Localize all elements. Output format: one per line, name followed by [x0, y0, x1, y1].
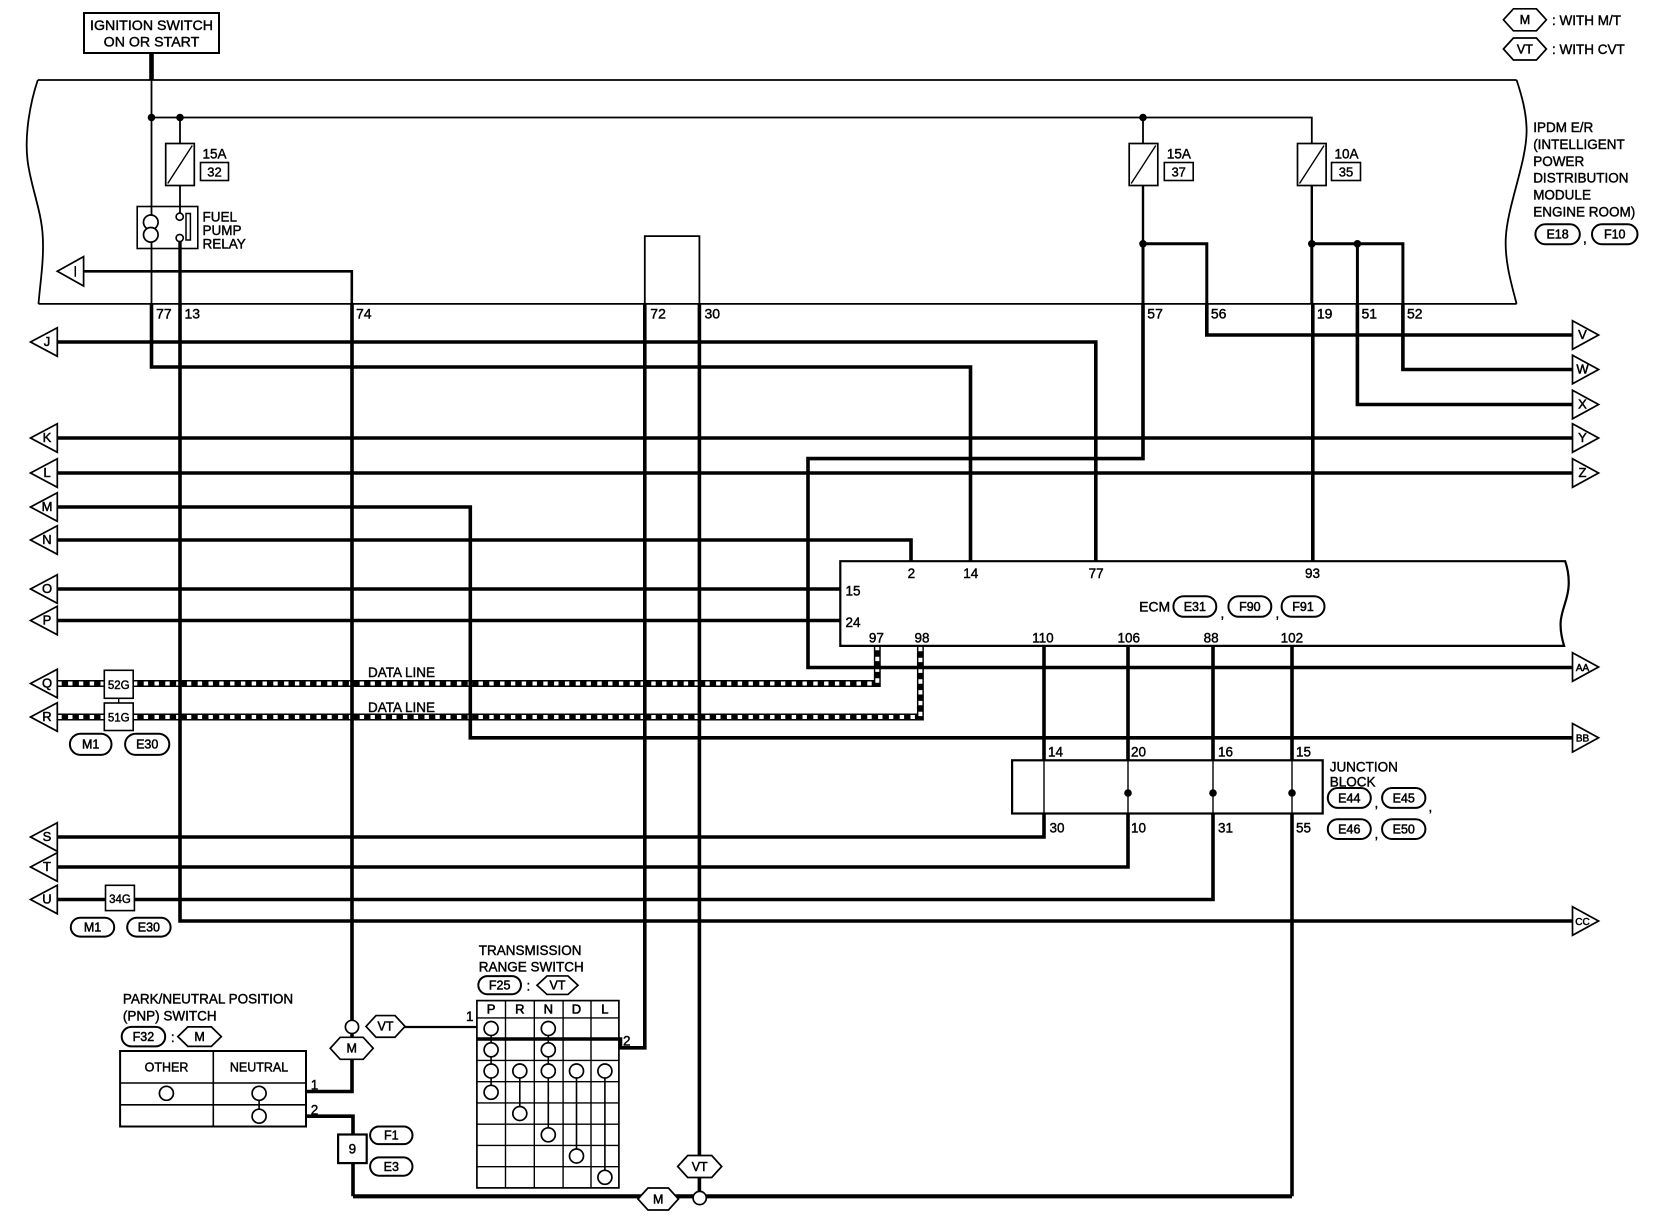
svg-text:30: 30	[705, 306, 721, 322]
svg-text:X: X	[1578, 396, 1587, 411]
symbol M (PNP branch)	[330, 1037, 373, 1059]
TRS contacts column N	[541, 1022, 555, 1036]
TRS contacts column L	[598, 1064, 612, 1078]
svg-text:(INTELLIGENT: (INTELLIGENT	[1533, 137, 1625, 152]
wire: junction block pin 55 down to ground run	[1290, 814, 1294, 1197]
connector 9 box	[338, 1135, 367, 1164]
wire: connector L to connector Z	[57, 471, 1572, 475]
node: junction block pin 16 splice	[1209, 789, 1217, 797]
svg-text:51: 51	[1362, 306, 1378, 322]
svg-text:,: ,	[1375, 796, 1379, 811]
svg-text:D: D	[572, 1002, 581, 1017]
svg-text:,: ,	[1276, 606, 1280, 621]
connector E31	[1173, 596, 1216, 617]
svg-text:S: S	[43, 829, 52, 844]
svg-text:10: 10	[1131, 821, 1146, 836]
svg-text:56: 56	[1211, 306, 1227, 322]
svg-text:PARK/NEUTRAL POSITION: PARK/NEUTRAL POSITION	[123, 992, 293, 1007]
svg-text:102: 102	[1281, 631, 1304, 646]
node: pin 56/57 junction	[1139, 240, 1147, 248]
connector AA	[1573, 653, 1599, 682]
fuel pump relay contact	[186, 214, 190, 241]
wire: connector S to junction block pin 30	[57, 814, 1044, 838]
TRS grid lines	[505, 1001, 507, 1188]
svg-text:N: N	[42, 532, 51, 547]
svg-text::: :	[527, 979, 531, 994]
ignition switch box	[84, 13, 219, 53]
svg-text:ENGINE ROOM): ENGINE ROOM)	[1533, 205, 1635, 220]
wire: ECM pin 106 to junction block pin 20	[1126, 646, 1130, 760]
svg-text:1: 1	[311, 1078, 319, 1093]
svg-text:M: M	[1520, 13, 1530, 27]
svg-text:E44: E44	[1338, 791, 1360, 805]
svg-text:57: 57	[1147, 306, 1163, 322]
svg-text:14: 14	[1048, 745, 1064, 760]
svg-text:32: 32	[207, 165, 221, 180]
legend symbol VT	[1503, 38, 1546, 60]
svg-text:,: ,	[1221, 606, 1225, 621]
wire: fuse 32 to fuel pump relay contact	[179, 185, 181, 214]
svg-text:77: 77	[1089, 566, 1104, 581]
node: junction block pin 15 splice	[1288, 789, 1296, 797]
svg-text:52: 52	[1407, 306, 1423, 322]
connector Y	[1573, 424, 1599, 453]
connector M1 (ground)	[71, 918, 114, 937]
wire: CAN data line from Q to ECM pin 97 (dashed)	[57, 646, 877, 684]
svg-text:O: O	[42, 581, 52, 596]
node: connector joint on ground run	[693, 1191, 706, 1204]
svg-text:20: 20	[1131, 745, 1146, 760]
svg-text:77: 77	[156, 306, 172, 322]
svg-text:,: ,	[1429, 800, 1433, 815]
svg-text:P: P	[43, 613, 52, 628]
splice 52G	[104, 670, 133, 698]
svg-text:T: T	[43, 859, 51, 874]
wire: link between 52G and 51G	[118, 698, 120, 703]
svg-text:NEUTRAL: NEUTRAL	[230, 1061, 288, 1075]
svg-text:19: 19	[1317, 306, 1333, 322]
wire: fuse 35 node branch to IPDM pins 51 and 52	[1312, 244, 1403, 304]
svg-text:OTHER: OTHER	[145, 1061, 189, 1075]
svg-text:52G: 52G	[108, 680, 130, 692]
connector E3	[370, 1157, 412, 1175]
svg-text:88: 88	[1204, 631, 1219, 646]
svg-text:E46: E46	[1338, 822, 1360, 836]
PNP contact neutral upper	[252, 1086, 266, 1100]
wire: connector M to connector BB	[57, 507, 1572, 738]
svg-text:M1: M1	[82, 738, 99, 752]
svg-text:16: 16	[1218, 745, 1233, 760]
connector E30 (data lines)	[125, 734, 169, 755]
wire: IPDM pin 57 to connector AA	[808, 304, 1573, 668]
wire: relay contact output to IPDM pin 13	[178, 241, 181, 304]
svg-text:M: M	[194, 1030, 204, 1044]
svg-text:ON OR START: ON OR START	[104, 35, 200, 51]
svg-text:: WITH CVT: : WITH CVT	[1552, 42, 1625, 57]
connector S	[31, 823, 58, 852]
connector K	[31, 424, 58, 453]
svg-text:VT: VT	[550, 979, 566, 993]
svg-text:14: 14	[963, 566, 979, 581]
connector P	[31, 606, 58, 635]
svg-text:F32: F32	[133, 1030, 155, 1044]
svg-text:72: 72	[650, 306, 666, 322]
wire: bus branch to fuse 32	[179, 118, 181, 145]
svg-text:E45: E45	[1393, 791, 1415, 805]
fuse 10A 35	[1298, 144, 1327, 186]
node: junction block pin 20 splice	[1124, 789, 1132, 797]
svg-text:10A: 10A	[1335, 147, 1359, 162]
svg-text:9: 9	[349, 1142, 357, 1157]
svg-text:Q: Q	[42, 676, 52, 691]
node: ignition bus junction	[148, 114, 156, 122]
symbol VT (TRS with CVT)	[537, 976, 578, 995]
connector X	[1573, 390, 1599, 419]
wire: connector O to ECM pin 15	[57, 587, 841, 591]
connector L	[31, 459, 58, 488]
wire: IPDM pin 52 to connector W	[1403, 304, 1573, 370]
wire: connector N to ECM pin 2	[57, 540, 911, 562]
wire: PNP switch pin 2 through connector 9 to ground run	[306, 1116, 353, 1196]
wire: IPDM pin 77 to ECM pin 14	[152, 304, 971, 562]
svg-text:L: L	[601, 1002, 608, 1017]
svg-text:F90: F90	[1239, 600, 1261, 614]
svg-text:F1: F1	[384, 1129, 399, 1143]
wire: IPDM pin 30 down to splice on ground run	[698, 304, 702, 1198]
wire: IPDM pin 56 to connector V	[1207, 304, 1573, 335]
TRS contacts column R	[513, 1064, 527, 1078]
svg-text:DISTRIBUTION: DISTRIBUTION	[1533, 171, 1628, 186]
wire: ignition switch feed into IPDM	[149, 53, 154, 81]
svg-text::: :	[171, 1030, 175, 1045]
svg-text:W: W	[1576, 361, 1589, 376]
svg-text:37: 37	[1171, 165, 1185, 180]
svg-text:MODULE: MODULE	[1533, 188, 1591, 203]
svg-text:AA: AA	[1576, 663, 1590, 674]
fuse number box 35	[1332, 163, 1361, 181]
connector M	[31, 493, 58, 522]
connector U	[31, 885, 58, 914]
svg-text:110: 110	[1032, 631, 1054, 646]
wire: fuse 37 output to junction node	[1142, 185, 1144, 244]
connector F1	[370, 1127, 412, 1145]
symbol VT (TRS branch)	[366, 1016, 405, 1038]
connector F32	[122, 1027, 166, 1047]
wire: fuse 35 output to junction node	[1311, 185, 1313, 244]
svg-text:,: ,	[1583, 231, 1587, 246]
node: fuse 32 branch junction	[176, 114, 184, 122]
TRS contacts column D	[570, 1064, 584, 1078]
fuel pump relay box	[137, 207, 198, 249]
wire: IPDM pin 51 to connector X	[1357, 304, 1572, 405]
ECM box	[840, 561, 1568, 646]
wire: CAN data line from R to ECM pin 98 (dashed)	[57, 646, 920, 717]
connector E30 (ground)	[127, 918, 170, 937]
connector BB	[1573, 724, 1599, 753]
wire: TRS contact links	[490, 1029, 492, 1093]
wire: IPDM pin 19 to ECM pin 93	[1311, 304, 1315, 562]
svg-text:M: M	[42, 499, 53, 514]
svg-text:34G: 34G	[109, 894, 131, 906]
svg-text:JUNCTION: JUNCTION	[1330, 760, 1398, 775]
junction block box	[1012, 760, 1323, 813]
wire: fuse 37 node branch to IPDM pin 56	[1143, 244, 1207, 304]
connector T	[31, 853, 58, 882]
wire: bus branch to fuse 37	[1142, 118, 1144, 145]
svg-text:98: 98	[914, 631, 929, 646]
svg-text:R: R	[515, 1002, 524, 1017]
connector V	[1573, 321, 1599, 350]
svg-text:ECM: ECM	[1139, 599, 1170, 615]
svg-text:K: K	[43, 430, 52, 445]
svg-text:2: 2	[623, 1034, 631, 1049]
svg-text:97: 97	[869, 631, 884, 646]
svg-text:1: 1	[466, 1009, 474, 1024]
connector F25	[478, 976, 521, 994]
IPDM E/R module outline (torn-edge box)	[27, 80, 1527, 304]
svg-text:51G: 51G	[108, 713, 130, 725]
wire: fuse 37 node to IPDM pin 57	[1142, 244, 1145, 304]
fuse number box 32	[201, 163, 229, 181]
svg-text:15: 15	[846, 584, 861, 599]
svg-text:F10: F10	[1604, 228, 1626, 242]
PNP switch table	[120, 1051, 306, 1127]
fuse 15A 32	[166, 144, 195, 186]
wire: IPDM pin 72 down to transmission range switch pin 2	[477, 304, 645, 1048]
legend symbol M	[1503, 9, 1546, 31]
svg-text:31: 31	[1218, 821, 1233, 836]
svg-text:E30: E30	[136, 738, 158, 752]
wire: fuse 35 node to IPDM pin 19	[1310, 244, 1313, 304]
svg-text:15A: 15A	[1167, 147, 1191, 162]
svg-text:U: U	[42, 892, 51, 907]
svg-text:55: 55	[1296, 821, 1311, 836]
connector J	[31, 328, 58, 357]
svg-text:30: 30	[1050, 821, 1065, 836]
svg-text:(PNP) SWITCH: (PNP) SWITCH	[123, 1009, 217, 1024]
wire: IPDM internal ignition branch down through relay coil	[151, 80, 153, 304]
wire: IPDM internal arrow line to pin 74	[83, 271, 352, 304]
svg-text:DATA LINE: DATA LINE	[368, 665, 435, 680]
connector E50	[1382, 819, 1425, 839]
svg-text:VT: VT	[378, 1020, 394, 1034]
connector Q	[31, 669, 58, 698]
PNP contact neutral lower	[252, 1109, 266, 1123]
connector E44	[1328, 788, 1371, 808]
svg-text:74: 74	[356, 306, 372, 322]
node: pin 51 junction	[1354, 240, 1362, 248]
svg-text:IGNITION SWITCH: IGNITION SWITCH	[90, 18, 213, 34]
svg-text:L: L	[43, 465, 50, 480]
connector E18	[1535, 224, 1579, 244]
wire: IPDM pin 13 to connector CC	[180, 304, 1573, 921]
svg-text:TRANSMISSION: TRANSMISSION	[479, 943, 582, 958]
connector R	[31, 703, 58, 732]
svg-text:106: 106	[1118, 631, 1141, 646]
wire: ECM pin 110 to junction block pin 14	[1042, 646, 1046, 760]
wire: PNP neutral contact link	[258, 1093, 260, 1116]
symbol M (ground run MT)	[638, 1188, 679, 1210]
IPDM internal page arrow	[57, 257, 83, 286]
svg-text:VT: VT	[692, 1160, 708, 1174]
svg-text:E31: E31	[1184, 600, 1206, 614]
svg-text:E3: E3	[384, 1160, 399, 1174]
wire: transmission range switch pin 1 feed	[405, 1026, 477, 1028]
svg-text:V: V	[1578, 327, 1587, 342]
svg-text:CC: CC	[1575, 917, 1589, 928]
wire: IPDM pin 74 down to PNP switch pin 1	[306, 304, 352, 1092]
splice 51G	[104, 703, 133, 731]
svg-text:2: 2	[311, 1103, 319, 1118]
svg-text:15A: 15A	[203, 147, 227, 162]
wire: connector P to ECM pin 24	[57, 619, 841, 623]
svg-text:E30: E30	[138, 921, 160, 935]
svg-text:2: 2	[908, 566, 916, 581]
svg-text:N: N	[544, 1002, 553, 1017]
symbol M (PNP with MT)	[178, 1027, 222, 1047]
connector M1 (data lines)	[70, 734, 112, 755]
PNP contact other	[159, 1086, 173, 1100]
node: connector joint on pin 74 wire	[345, 1020, 358, 1033]
connector F90	[1228, 596, 1271, 617]
svg-text:E50: E50	[1393, 822, 1415, 836]
wire: connector J to ECM pin 77	[57, 342, 1096, 562]
svg-text:J: J	[44, 334, 51, 349]
connector F10	[1592, 224, 1638, 244]
svg-text:RELAY: RELAY	[203, 237, 246, 252]
wire: ECM pin 102 to junction block pin 15	[1290, 646, 1294, 760]
connector E46	[1328, 819, 1371, 839]
wire: IPDM internal bus from ignition node to fuse 35	[152, 118, 1312, 145]
svg-text:,: ,	[1375, 827, 1379, 842]
svg-text:F91: F91	[1292, 600, 1314, 614]
wire: connector K to connector Y	[57, 436, 1572, 440]
connector N	[31, 526, 58, 555]
svg-text:Y: Y	[1578, 430, 1587, 445]
svg-text:: WITH M/T: : WITH M/T	[1552, 13, 1621, 28]
svg-text:RANGE SWITCH: RANGE SWITCH	[479, 960, 584, 975]
svg-text:93: 93	[1305, 566, 1320, 581]
node: pin 19 junction	[1308, 240, 1316, 248]
wire: TRS pin 2 row line	[477, 1037, 619, 1041]
wire: ECM pin 88 to junction block pin 16	[1211, 646, 1215, 760]
fuel pump relay coil	[144, 215, 159, 230]
svg-text:15: 15	[1296, 745, 1311, 760]
svg-text:M: M	[653, 1192, 663, 1206]
fuse number box 37	[1164, 163, 1193, 181]
svg-text:R: R	[42, 709, 51, 724]
svg-text:13: 13	[185, 306, 201, 322]
wire: branch down to IPDM pin 51	[1356, 244, 1359, 304]
svg-text:M1: M1	[84, 921, 101, 935]
PNP table grid	[212, 1051, 214, 1127]
connector F91	[1282, 596, 1325, 617]
connector O	[31, 575, 58, 604]
wire: connector U to junction block pin 31	[57, 814, 1213, 900]
wire: ground run along bottom	[353, 1194, 1292, 1198]
svg-text:BB: BB	[1576, 734, 1590, 745]
connector E45	[1382, 788, 1425, 808]
svg-text:35: 35	[1339, 165, 1353, 180]
junction block internal pin lines	[1043, 760, 1045, 813]
fuse 15A 37	[1129, 144, 1158, 186]
svg-text:VT: VT	[1517, 42, 1533, 56]
connector Z	[1573, 459, 1599, 488]
svg-text:24: 24	[846, 615, 862, 630]
svg-text:F25: F25	[489, 978, 511, 992]
connector CC	[1573, 907, 1599, 936]
svg-text:P: P	[487, 1002, 496, 1017]
svg-text:POWER: POWER	[1533, 154, 1584, 169]
splice 34G	[106, 885, 135, 910]
svg-text:M: M	[346, 1042, 356, 1056]
connector W	[1573, 355, 1599, 384]
node: fuse 37 branch junction	[1139, 114, 1147, 122]
symbol VT (ground run CVT)	[678, 1156, 722, 1178]
svg-text:IPDM E/R: IPDM E/R	[1533, 120, 1593, 135]
svg-text:DATA LINE: DATA LINE	[368, 700, 435, 715]
wire: IPDM internal loop pin 72 to pin 30	[645, 236, 700, 304]
wire: connector T to junction block pin 10	[57, 814, 1128, 868]
TRS contacts column P	[484, 1022, 498, 1036]
svg-text:Z: Z	[1579, 465, 1587, 480]
transmission range switch grid	[477, 1001, 619, 1188]
svg-text:E18: E18	[1546, 228, 1568, 242]
